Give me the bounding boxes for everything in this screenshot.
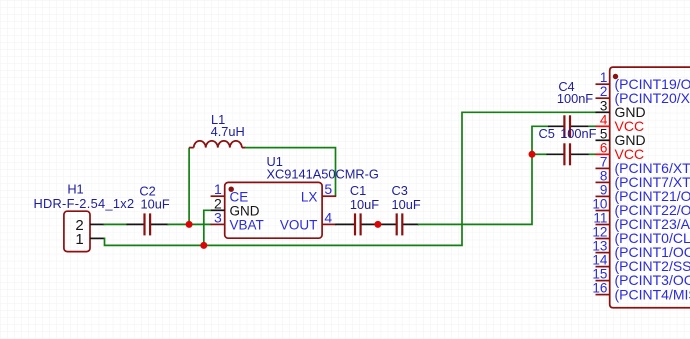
svg-text:3: 3: [600, 98, 608, 113]
connector H1: [33, 182, 134, 252]
pin 14 (PCINT2/SS/OC1B)PB2: [592, 253, 690, 275]
wire L1 left terminal down to VBAT junction: [188, 148, 190, 225]
capacitor C5: [532, 126, 597, 165]
svg-text:15: 15: [592, 267, 607, 282]
wire U1 GND pin down to ground rail: [204, 210, 211, 245]
capacitor C3: [378, 183, 421, 235]
wire VOUT rail to VCC riser: [418, 126, 532, 224]
svg-text:100nF: 100nF: [557, 91, 593, 106]
pin 6 VCC: [596, 140, 645, 162]
svg-text:VBAT: VBAT: [230, 218, 264, 233]
svg-text:C5: C5: [539, 126, 555, 141]
wire L1 right terminal to U1 LX pin: [245, 148, 336, 197]
svg-text:5: 5: [600, 126, 608, 141]
svg-text:1: 1: [600, 70, 608, 85]
svg-text:GND: GND: [230, 204, 260, 219]
pin 12 (PCINT0/CLKO/ICP1)PB0: [592, 225, 690, 247]
pin 4 VCC: [596, 112, 645, 134]
svg-text:4: 4: [600, 112, 608, 127]
pin 15 (PCINT3/OC2A/MOSI)PB3: [592, 267, 690, 289]
junction on ground rail: [200, 242, 207, 249]
svg-text:1: 1: [75, 231, 83, 248]
IC U1 XC9141A50CMR-G: [211, 154, 379, 238]
svg-text:8: 8: [600, 168, 608, 183]
pin 16 (PCINT4/MISO)PB4: [592, 281, 690, 303]
wire C2 to U1 VBAT: [168, 223, 212, 225]
inductor L1: [189, 112, 246, 148]
junction on VCC riser at C5 branch: [529, 151, 536, 158]
svg-text:10uF: 10uF: [141, 197, 170, 212]
svg-text:9: 9: [600, 182, 608, 197]
svg-text:VOUT: VOUT: [280, 218, 318, 233]
capacitor C2: [127, 184, 170, 236]
svg-text:10: 10: [592, 196, 607, 211]
svg-text:5: 5: [324, 181, 332, 197]
pin 9 (PCINT21/OC0B/T1)PD5: [596, 182, 690, 204]
svg-text:7: 7: [600, 154, 608, 169]
svg-text:XC9141A50CMR-G: XC9141A50CMR-G: [267, 166, 379, 181]
pin 1 (PCINT19/OC2B/INT1)PD3: [596, 70, 690, 92]
capacitor C4: [531, 79, 596, 137]
svg-text:12: 12: [592, 225, 607, 240]
svg-text:14: 14: [592, 253, 608, 268]
pin 7 (PCINT6/XTAL1/TOSC1)PB6: [596, 154, 690, 176]
svg-text:4.7uH: 4.7uH: [211, 124, 245, 139]
svg-text:H1: H1: [67, 182, 83, 197]
pin 5 GND: [596, 126, 646, 148]
pin 2 (PCINT20/XCK/T0)PD4: [596, 84, 690, 106]
capacitor C1: [335, 183, 379, 235]
svg-text:100nF: 100nF: [560, 126, 596, 141]
junction VBAT node: [186, 221, 193, 228]
pin 13 (PCINT1/OC1A)PB1: [592, 239, 690, 261]
svg-text:3: 3: [214, 209, 222, 225]
svg-text:(PCINT4/MISO)PB4: (PCINT4/MISO)PB4: [615, 286, 690, 302]
svg-text:4: 4: [324, 209, 332, 225]
svg-text:CE: CE: [230, 189, 249, 204]
wire ground rail from H1 pin1 to ATmega GND pin 3: [104, 112, 597, 245]
svg-text:10uF: 10uF: [350, 197, 379, 212]
pin 8 (PCINT7/XTAL2/TOSC2)PB7: [596, 168, 690, 190]
wire H1 pin2 to C2: [104, 223, 128, 225]
svg-text:6: 6: [600, 140, 608, 155]
svg-text:16: 16: [592, 281, 607, 296]
svg-text:11: 11: [593, 211, 607, 226]
pin 3 GND: [596, 98, 646, 120]
svg-text:HDR-F-2.54_1x2: HDR-F-2.54_1x2: [33, 196, 134, 211]
svg-text:13: 13: [592, 239, 607, 254]
junction between C1 and C3: [374, 221, 381, 228]
svg-text:2: 2: [600, 84, 608, 99]
IC U2 ATmega328P: [592, 67, 690, 308]
pin 10 (PCINT22/OC0A/AIN0)PD6: [592, 196, 690, 218]
svg-text:LX: LX: [301, 189, 318, 204]
pin 11 (PCINT23/AIN1)PD7: [593, 211, 690, 233]
svg-text:10uF: 10uF: [392, 197, 421, 212]
